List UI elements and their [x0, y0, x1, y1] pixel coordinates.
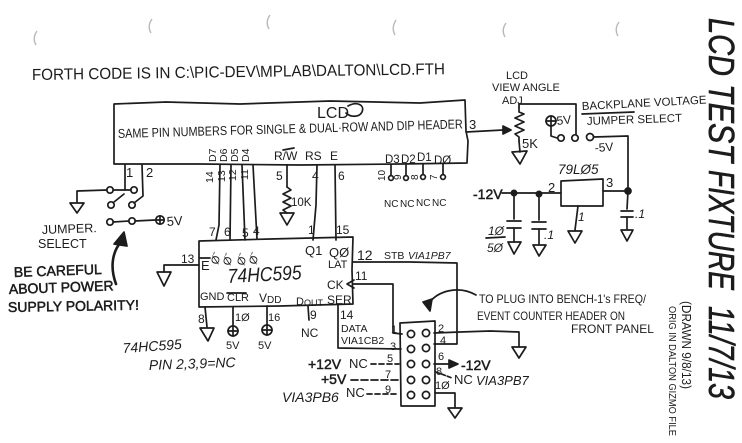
backplane jumper JP2	[558, 135, 564, 141]
svg-text:Q1: Q1	[305, 243, 322, 258]
ground	[200, 328, 214, 341]
svg-text:.1: .1	[635, 207, 645, 221]
svg-text:1: 1	[126, 165, 133, 180]
svg-text:LCD: LCD	[701, 18, 742, 76]
svg-text:6: 6	[338, 169, 345, 183]
pin 10 +5V	[232, 307, 234, 326]
svg-text:NC: NC	[346, 385, 365, 400]
svg-text:GND: GND	[200, 291, 225, 303]
+5V supply	[113, 221, 129, 222]
svg-text:3: 3	[390, 341, 396, 353]
svg-text:DATA: DATA	[341, 323, 367, 335]
svg-text:-12V: -12V	[461, 357, 491, 373]
svg-text:NC: NC	[400, 199, 414, 210]
LCD pin 2 wire	[134, 165, 143, 203]
svg-text:12: 12	[227, 169, 239, 181]
svg-text:4: 4	[253, 224, 260, 238]
svg-text:D3: D3	[385, 154, 400, 166]
NC stub pin 8	[422, 164, 424, 174]
svg-text:4: 4	[312, 169, 319, 183]
ground	[533, 245, 546, 256]
svg-text:16: 16	[268, 312, 280, 324]
svg-text:11/7/13: 11/7/13	[701, 306, 742, 399]
svg-text:5Ø: 5Ø	[487, 241, 504, 255]
svg-text:3: 3	[469, 117, 476, 132]
svg-text:74HC595: 74HC595	[227, 262, 303, 288]
wire D6 pin 13	[230, 165, 231, 240]
svg-text:BE CAREFUL: BE CAREFUL	[14, 261, 103, 280]
svg-text:D1: D1	[417, 152, 432, 164]
junction	[625, 188, 631, 194]
title LCD TEST FIXTURE 11/7/13	[701, 18, 742, 399]
pin 11 CK wire	[353, 284, 402, 334]
svg-text:5V: 5V	[258, 340, 272, 352]
svg-text:+12V: +12V	[308, 356, 342, 372]
svg-text:VIA1CB2: VIA1CB2	[341, 335, 384, 347]
svg-text:5K: 5K	[522, 136, 538, 151]
ground	[512, 151, 527, 164]
junction	[536, 191, 541, 196]
svg-text:D4: D4	[240, 148, 252, 162]
arrow to header	[429, 290, 476, 303]
header pin circles	[407, 330, 414, 337]
svg-text:1: 1	[308, 223, 315, 237]
svg-text:R/W: R/W	[274, 149, 298, 163]
svg-text:D2: D2	[401, 154, 416, 166]
wire D4 pin 11	[253, 165, 257, 239]
svg-text:NC: NC	[454, 372, 473, 387]
wire RS pin 4	[313, 165, 317, 240]
svg-text:NC: NC	[432, 198, 446, 209]
svg-text:DD: DD	[267, 295, 281, 306]
svg-text:5: 5	[276, 169, 283, 183]
svg-text:ORIG IN DALTON GIZMO FILE: ORIG IN DALTON GIZMO FILE	[666, 306, 678, 436]
LCD pin 1 wire	[124, 165, 126, 190]
pin 8 GND wire	[205, 307, 207, 327]
svg-text:D: D	[296, 296, 304, 308]
output labels QH QG QF QE	[209, 251, 262, 267]
svg-text:9: 9	[393, 174, 404, 180]
svg-text:7: 7	[429, 174, 440, 180]
svg-text:1: 1	[391, 324, 397, 336]
svg-text:CK: CK	[327, 278, 344, 292]
svg-text:12: 12	[357, 247, 373, 263]
svg-text:9: 9	[310, 308, 317, 322]
svg-text:6: 6	[224, 225, 231, 239]
arrow to jumper	[113, 242, 121, 284]
junction	[511, 190, 516, 195]
jumper select JP1	[107, 187, 113, 193]
svg-text:4: 4	[440, 335, 446, 347]
ground	[568, 231, 582, 243]
svg-text:.1: .1	[544, 228, 554, 242]
svg-text:10: 10	[377, 169, 388, 181]
net -5V wire	[594, 136, 628, 189]
potentiometer 5K	[515, 107, 524, 141]
LCD pin labels D7 D6 D5 D4	[207, 148, 252, 162]
svg-text:8: 8	[410, 174, 421, 180]
ground	[448, 408, 462, 418]
labels NC NC NC NC	[384, 198, 446, 210]
svg-text:PIN 2,3,9=NC: PIN 2,3,9=NC	[149, 354, 237, 373]
svg-text:5: 5	[242, 226, 249, 240]
svg-text:15: 15	[336, 223, 350, 237]
wire E pin 6	[335, 165, 336, 240]
svg-text:NC: NC	[301, 326, 319, 340]
pot top wire	[519, 104, 576, 134]
svg-text:+5V: +5V	[321, 371, 347, 387]
wire pin 6 -12V	[434, 363, 451, 365]
svg-text:STB: STB	[384, 250, 404, 262]
pin 12 LAT STB VIA1PB7 wire	[353, 262, 457, 344]
svg-text:1: 1	[578, 210, 585, 224]
svg-text:TEST: TEST	[701, 84, 742, 165]
header J1 box	[400, 321, 435, 406]
svg-text:NC: NC	[349, 356, 368, 371]
+5V supply	[546, 116, 556, 126]
svg-text:V: V	[259, 291, 267, 305]
svg-text:13: 13	[181, 252, 195, 266]
LCD module box	[114, 100, 468, 165]
svg-text:EVENT COUNTER HEADER ON: EVENT COUNTER HEADER ON	[477, 309, 625, 323]
svg-text:7: 7	[209, 225, 216, 239]
svg-text:2: 2	[146, 165, 153, 180]
NC stub pin 9	[405, 165, 407, 175]
svg-text:1Ø: 1Ø	[435, 380, 450, 392]
off-board arrow	[512, 347, 526, 358]
ground	[280, 213, 294, 225]
svg-text:E: E	[201, 258, 210, 273]
pin 9 Dout NC	[308, 306, 309, 320]
capacitor C2 .1	[538, 194, 540, 220]
svg-text:E: E	[330, 149, 338, 163]
svg-text:8: 8	[198, 312, 205, 326]
svg-text:3: 3	[606, 175, 613, 190]
svg-text:10K: 10K	[291, 197, 312, 209]
ground	[508, 242, 521, 254]
svg-text:11: 11	[239, 169, 251, 180]
wire pin 10 ground	[435, 393, 455, 407]
svg-text:VIA3PB7: VIA3PB7	[476, 373, 530, 388]
svg-text:-12V: -12V	[473, 186, 503, 202]
svg-text:LAT: LAT	[328, 259, 348, 271]
svg-text:14: 14	[204, 171, 216, 183]
svg-text:1Ø: 1Ø	[488, 224, 505, 238]
regulator output wire	[603, 190, 628, 192]
svg-text:RS: RS	[305, 149, 322, 163]
svg-text:79LØ5: 79LØ5	[558, 162, 599, 177]
svg-text:11: 11	[355, 269, 368, 283]
svg-text:VIA1PB7: VIA1PB7	[408, 250, 452, 262]
capacitor C1 10/50	[513, 193, 515, 219]
wire D7 pin 14	[216, 165, 220, 240]
svg-text:FIXTURE: FIXTURE	[701, 170, 742, 291]
labels D3 D2 D1 D0	[385, 152, 451, 167]
svg-text:FRONT PANEL: FRONT PANEL	[571, 322, 654, 336]
NC stub pin 10	[390, 165, 392, 175]
wire R/W pin 5	[286, 165, 288, 187]
svg-text:JUMPER.: JUMPER.	[42, 221, 97, 237]
pin 14 SER DATA VIA1CB2 wire	[338, 305, 401, 349]
svg-text:5V: 5V	[166, 213, 183, 229]
svg-text:14: 14	[340, 308, 354, 322]
pin 8 NC VIA3PB7	[436, 372, 452, 378]
svg-text:1Ø: 1Ø	[235, 312, 250, 324]
wire pin 2 to front panel	[434, 331, 519, 346]
svg-text:-5V: -5V	[594, 140, 614, 155]
IC U1 74HC595 box	[199, 237, 353, 307]
svg-text:SUPPLY POLARITY!: SUPPLY POLARITY!	[8, 297, 139, 315]
svg-text:VIA3PB6: VIA3PB6	[282, 389, 339, 405]
svg-text:SELECT: SELECT	[38, 237, 87, 251]
svg-text:LCD: LCD	[506, 70, 528, 82]
svg-text:NC: NC	[416, 198, 430, 209]
ground	[77, 190, 107, 202]
NC stub pin 7	[442, 164, 444, 174]
ground	[621, 230, 633, 241]
regulator pin 1 ground wire	[575, 206, 578, 230]
svg-text:6: 6	[438, 351, 444, 363]
resistor 10K	[283, 187, 291, 213]
wire D5 pin 12	[242, 165, 245, 240]
svg-text:(DRAWN 9/8/13): (DRAWN 9/8/13)	[679, 301, 693, 389]
svg-text:SER: SER	[327, 293, 352, 307]
svg-text:VIEW ANGLE: VIEW ANGLE	[492, 82, 560, 94]
svg-text:5V: 5V	[556, 113, 572, 128]
svg-text:QØ: QØ	[329, 245, 349, 260]
svg-text:5V: 5V	[226, 340, 240, 352]
ground	[157, 272, 171, 286]
pin 16 +5V	[266, 306, 268, 325]
svg-text:NC: NC	[384, 199, 398, 210]
svg-text:TO PLUG INTO BENCH-1's FREQ/: TO PLUG INTO BENCH-1's FREQ/	[479, 292, 647, 306]
svg-text:OUT: OUT	[304, 298, 324, 308]
capacitor C3 .1	[627, 191, 628, 209]
